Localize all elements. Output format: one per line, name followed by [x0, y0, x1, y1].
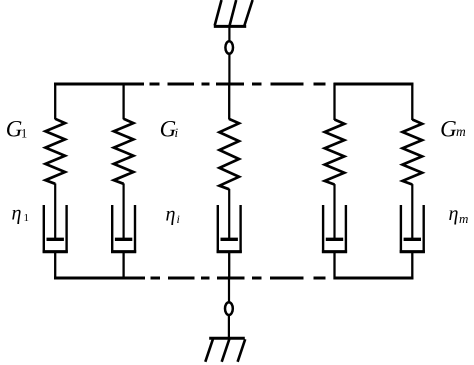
dashpot i piston plate — [221, 238, 238, 241]
wire: branch1 bottom rod — [54, 252, 56, 280]
fixed support top (hatched wall) — [214, 0, 253, 26]
dashpot m piston plate — [404, 238, 421, 241]
wire: bottom rod to pin — [228, 278, 230, 303]
wire: branch m piston rod — [411, 184, 413, 239]
svg-text:i: i — [175, 125, 179, 140]
wire: top bar left solid — [54, 83, 144, 86]
dashpot 2 cylinder — [112, 205, 135, 252]
wire: top support rod — [228, 27, 230, 42]
bottom bar (solid + dash-dot sections), y=278 — [54, 277, 413, 280]
spring (branch 2) — [114, 119, 134, 184]
dashpot 1 cylinder — [44, 205, 67, 252]
dashpot i cylinder — [218, 205, 241, 252]
wire: bottom bar dash-dot left — [151, 277, 161, 280]
svg-text:m: m — [459, 211, 468, 226]
pin joint bottom (circle) — [225, 302, 233, 315]
spring (branch 4) — [325, 120, 345, 185]
wire: branch4 piston rod — [333, 184, 335, 239]
wire: branch i piston rod — [228, 189, 230, 239]
wire: branch4 top rod — [333, 83, 335, 120]
wire: rod from top pin to top bar — [228, 54, 230, 84]
wire: branch i bottom rod — [228, 252, 230, 280]
wire: branch2 piston rod — [122, 183, 124, 239]
svg-text:η: η — [12, 203, 22, 225]
wire: bottom bar center solid — [217, 277, 245, 280]
dashpot 4 piston plate — [326, 238, 343, 241]
wire: rod from bottom pin to bottom support — [228, 315, 230, 338]
wire: bottom bar right solid — [334, 277, 414, 280]
wire: bottom bar left solid — [54, 277, 145, 280]
wire: bottom bar dash-dot right — [252, 277, 262, 280]
dashpot 1 piston plate — [47, 238, 64, 241]
spring G1 — [45, 119, 65, 184]
spring Gm — [403, 120, 423, 185]
wire: branch m top rod — [411, 83, 413, 120]
wire: top bar dash-dot left — [150, 83, 160, 86]
pin joint top (circle) — [225, 41, 233, 54]
wire: branch4 bottom rod — [333, 252, 335, 280]
wire: branch1 piston rod — [54, 183, 56, 239]
top bar (solid + dash-dot sections), y=84 — [54, 83, 413, 86]
svg-text:η: η — [166, 204, 176, 226]
svg-text:G: G — [440, 116, 457, 141]
dashpot 4 cylinder — [323, 205, 346, 252]
svg-text:1: 1 — [24, 212, 30, 224]
svg-text:i: i — [177, 212, 180, 226]
wire: branch m bottom rod — [411, 252, 413, 280]
svg-text:η: η — [449, 203, 459, 225]
wire: branch2 bottom rod — [122, 252, 124, 280]
wire: top bar right solid — [334, 83, 413, 86]
svg-text:m: m — [456, 124, 466, 139]
dashpot m cylinder — [401, 205, 424, 252]
wire: branch i top rod — [228, 83, 230, 120]
fixed support bottom (hatched ground) — [205, 338, 245, 362]
wire: branch1 top rod — [54, 83, 56, 120]
wire: top bar center solid — [216, 83, 244, 86]
wire: branch2 top rod — [122, 83, 124, 120]
svg-text:1: 1 — [21, 127, 27, 141]
spring Gi — [219, 119, 239, 189]
wire: top bar dash-dot right — [252, 83, 262, 86]
dashpot 2 piston plate — [115, 238, 132, 241]
